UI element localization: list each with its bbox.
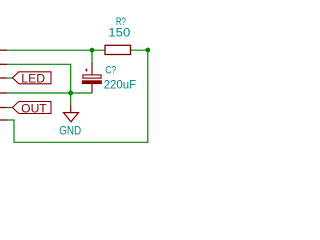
svg-text:C?: C?	[105, 65, 116, 77]
svg-text:220uF: 220uF	[104, 77, 137, 91]
junction at GND branch	[68, 91, 73, 96]
resistor reference R?	[116, 16, 126, 28]
wire row3 stub	[7, 77, 13, 79]
wire row6 loop	[7, 50, 148, 142]
net name GND	[59, 124, 81, 138]
junction at capacitor branch	[90, 48, 95, 53]
svg-text:150: 150	[108, 26, 130, 40]
resistor value 150	[108, 26, 130, 40]
wire row2	[7, 64, 71, 93]
svg-text:GND: GND	[59, 124, 81, 138]
resistor R?	[105, 45, 131, 54]
capacitor C?	[82, 62, 102, 93]
pin stub row5	[0, 107, 7, 109]
pin stub row3	[0, 77, 7, 79]
wire GND stub	[70, 93, 72, 105]
junction at right edge	[145, 48, 150, 53]
wire row5 stub	[7, 107, 13, 109]
wire row1 left	[7, 49, 105, 51]
global label OUT	[12, 101, 51, 115]
power symbol GND	[64, 105, 79, 122]
svg-text:OUT: OUT	[21, 101, 46, 115]
capacitor reference C?	[105, 65, 116, 77]
pin stub row1	[0, 49, 7, 51]
wire cap top stub	[91, 50, 93, 62]
wire row1 right of resistor	[131, 49, 148, 51]
capacitor value 220uF	[104, 77, 137, 91]
pin stub row4	[0, 92, 7, 94]
pin stub row6	[0, 119, 7, 121]
pin stub row2	[0, 63, 7, 65]
global label LED	[12, 72, 51, 86]
wire row4	[7, 92, 92, 94]
svg-text:LED: LED	[21, 72, 45, 86]
